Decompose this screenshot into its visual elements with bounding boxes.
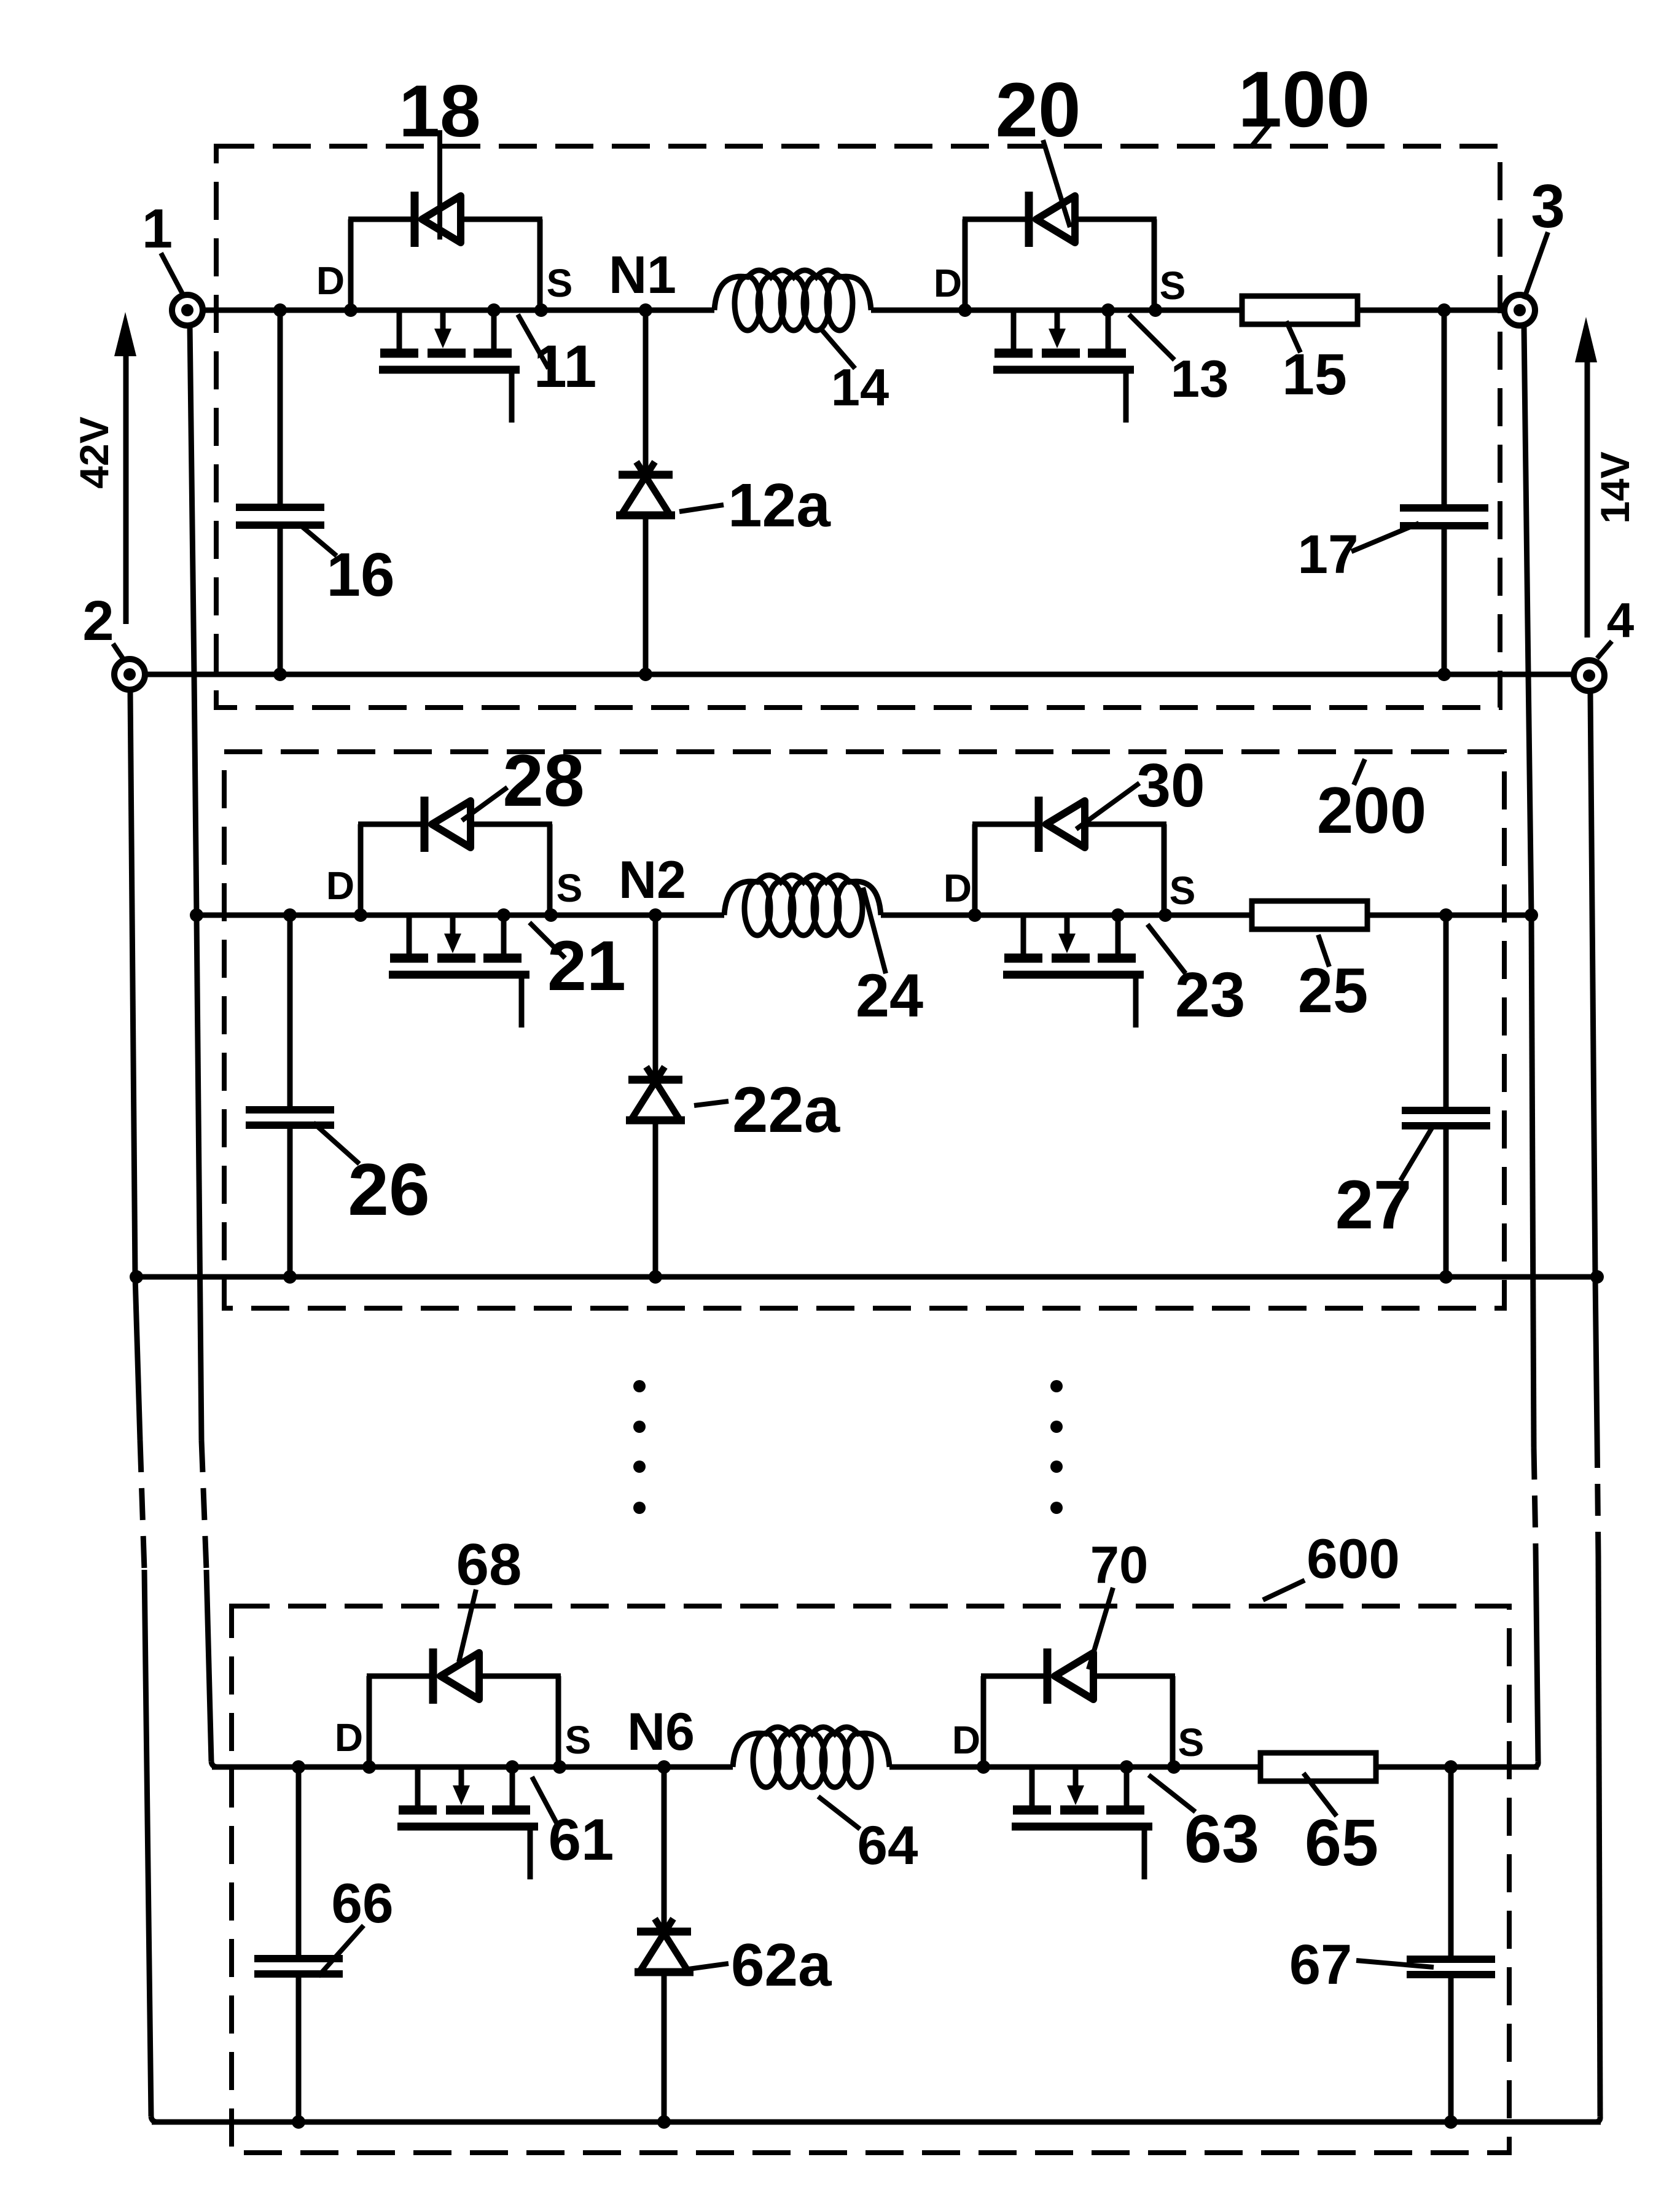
diode D18 <box>415 192 461 247</box>
svg-text:67: 67 <box>1289 1933 1352 1996</box>
svg-text:S: S <box>565 1718 592 1762</box>
label 25 <box>1298 935 1369 1026</box>
junction: ground bus at block 200 bottom rail <box>130 1270 143 1284</box>
label block 100 <box>1238 55 1370 147</box>
dashed box: converter block 200 <box>224 752 1504 1308</box>
capacitor C67 <box>1407 1767 1495 2122</box>
junction: source stub of Q11 <box>487 303 501 317</box>
svg-text:14: 14 <box>831 359 889 417</box>
label 11 <box>518 314 596 400</box>
svg-text:18: 18 <box>399 70 480 152</box>
junction: source stub of Q13 <box>1101 303 1115 317</box>
42V arrow <box>114 312 136 624</box>
wire: bottom rail block 600 <box>152 2120 1601 2125</box>
inductor L64 <box>733 1727 889 1767</box>
svg-text:42V: 42V <box>71 416 117 488</box>
junction: drain of Q63 <box>977 1760 990 1774</box>
label 62a <box>689 1931 832 1999</box>
svg-text:30: 30 <box>1136 751 1205 820</box>
svg-text:62a: 62a <box>731 1931 832 1999</box>
wire: ground bus from terminal 2 down to blocks 200 and 600 <box>130 691 157 2122</box>
inductor L24 <box>724 875 881 915</box>
junction: source of Q11 <box>534 303 548 317</box>
svg-text:15: 15 <box>1282 342 1347 407</box>
wire: diode D30 loop <box>972 824 1166 915</box>
transistor Q21 (MOSFET 21) <box>389 915 529 1028</box>
wire: diode D20 loop <box>963 219 1157 310</box>
wire: top rail block 100 (terminal 1 to terminal 3) <box>203 308 1504 313</box>
label block 600 <box>1263 1528 1400 1600</box>
diode D20 <box>1029 192 1075 247</box>
capacitor C66 <box>254 1767 343 2122</box>
svg-text:25: 25 <box>1298 955 1369 1026</box>
svg-text:D: D <box>944 866 972 910</box>
label 27 <box>1335 1127 1432 1243</box>
svg-text:65: 65 <box>1305 1805 1378 1879</box>
svg-text:23: 23 <box>1175 959 1246 1030</box>
wire: node to zener 12a <box>643 310 649 475</box>
inductor L14 <box>714 270 871 310</box>
wire: node to zener 22a <box>653 915 658 1080</box>
junction: C66 top <box>292 1760 305 1774</box>
svg-text:24: 24 <box>856 961 923 1029</box>
junction: C67 bottom <box>1444 2115 1458 2129</box>
svg-text:100: 100 <box>1238 55 1370 144</box>
label 30 <box>1076 751 1205 829</box>
junction: drain of Q21 <box>354 908 367 922</box>
svg-text:22a: 22a <box>732 1074 841 1146</box>
wire: terminal 4 bus down to blocks 200 and 600 <box>1590 693 1600 2122</box>
wire: node to zener 62a <box>662 1767 667 1932</box>
svg-text:63: 63 <box>1184 1801 1259 1877</box>
label 21 <box>529 922 626 1005</box>
svg-text:28: 28 <box>502 739 584 822</box>
resistor R15 <box>1242 296 1358 324</box>
wire: zener 22a to bottom rail <box>653 1120 658 1277</box>
diode D30 <box>1039 797 1085 852</box>
junction: drain of Q13 <box>958 303 972 317</box>
svg-text:S: S <box>547 261 573 305</box>
svg-text:1: 1 <box>142 198 173 260</box>
label 70 <box>1088 1536 1148 1669</box>
svg-text:200: 200 <box>1317 773 1427 847</box>
label 12a <box>679 471 831 540</box>
capacitor C16 <box>236 310 324 674</box>
node N6 <box>657 1760 671 1774</box>
svg-text:13: 13 <box>1171 350 1229 408</box>
wire: diode D70 loop <box>981 1676 1175 1767</box>
terminal 2 <box>114 659 145 690</box>
label 26 <box>313 1123 430 1231</box>
junction: drain of Q61 <box>362 1760 376 1774</box>
label 67 <box>1289 1933 1434 1996</box>
svg-text:27: 27 <box>1335 1166 1412 1243</box>
junction: source stub of Q23 <box>1111 908 1125 922</box>
svg-text:26: 26 <box>348 1149 429 1231</box>
label 20 <box>995 68 1080 227</box>
terminal 1 <box>172 295 203 326</box>
svg-text:68: 68 <box>456 1532 522 1597</box>
svg-text:D: D <box>326 864 354 908</box>
junction: source of Q61 <box>553 1760 566 1774</box>
junction: source of Q63 <box>1167 1760 1181 1774</box>
junction: drain of Q11 <box>344 303 357 317</box>
junction: R65 output node <box>1444 1760 1458 1774</box>
svg-text:14V: 14V <box>1592 451 1638 523</box>
junction: source of Q13 <box>1149 303 1162 317</box>
junction: source stub of Q61 <box>506 1760 519 1774</box>
junction: C66 bottom <box>292 2115 305 2129</box>
wire: 42V bus from terminal 1 down to blocks 200 and 600 <box>190 324 217 1767</box>
svg-text:S: S <box>1178 1720 1205 1765</box>
label 28 <box>462 739 585 822</box>
junction: source of Q21 <box>544 908 558 922</box>
label 15 <box>1282 321 1347 407</box>
svg-text:12a: 12a <box>728 471 831 540</box>
resistor R65 <box>1260 1753 1376 1781</box>
label 24 <box>856 887 923 1029</box>
svg-text:D: D <box>952 1718 980 1762</box>
diode D68 <box>433 1648 479 1704</box>
svg-text:61: 61 <box>549 1807 614 1873</box>
wire: diode D68 loop <box>367 1676 561 1767</box>
label 13 <box>1129 314 1229 408</box>
label 14 <box>821 329 889 417</box>
junction: R15 output node <box>1437 303 1451 317</box>
wire: diode D28 loop <box>358 824 552 915</box>
svg-text:600: 600 <box>1307 1528 1400 1590</box>
label block 200 <box>1317 759 1427 847</box>
ellipsis dots (more blocks) right column <box>1050 1380 1063 1514</box>
transistor Q61 (MOSFET 61) <box>397 1767 538 1879</box>
junction: C26 top <box>283 908 297 922</box>
label 23 <box>1147 924 1245 1030</box>
wire: bottom rail (terminal 2 to terminal 4) <box>145 672 1574 677</box>
junction: C26 bottom <box>283 1270 297 1284</box>
svg-text:17: 17 <box>1298 523 1359 585</box>
svg-text:S: S <box>1170 868 1196 913</box>
capacitor C17 <box>1400 310 1488 674</box>
label 64 <box>818 1796 918 1876</box>
svg-text:N6: N6 <box>627 1703 695 1761</box>
junction: source stub of Q63 <box>1120 1760 1133 1774</box>
zener diode 12a <box>616 462 675 515</box>
svg-text:D: D <box>335 1715 363 1760</box>
svg-text:64: 64 <box>858 1814 918 1876</box>
junction: terminal 4 bus at block 200 bottom rail <box>1590 1270 1604 1284</box>
junction: 14V bus at block 200 rail <box>1525 908 1538 922</box>
diode D70 <box>1047 1648 1093 1704</box>
junction: C16 top <box>273 303 287 317</box>
svg-text:N2: N2 <box>619 851 686 910</box>
wire: zener 62a to bottom rail <box>662 1972 667 2122</box>
capacitor C26 <box>246 915 334 1277</box>
wire: diode D18 loop <box>348 219 542 310</box>
junction: source of Q23 <box>1158 908 1172 922</box>
svg-text:2: 2 <box>82 590 114 652</box>
svg-text:S: S <box>1160 263 1186 308</box>
dashed box: converter block 600 <box>232 1606 1509 2153</box>
node N1 <box>639 303 652 317</box>
transistor Q11 (MOSFET 11) <box>379 310 520 423</box>
svg-text:16: 16 <box>326 540 394 609</box>
junction: R25 output node <box>1439 908 1453 922</box>
svg-text:4: 4 <box>1607 593 1635 647</box>
wire: top rail block 600 <box>212 1765 1539 1770</box>
node N2 <box>649 908 662 922</box>
svg-text:D: D <box>934 261 962 305</box>
label 3 <box>1524 172 1565 299</box>
label 66 <box>318 1873 394 1976</box>
svg-text:N1: N1 <box>609 246 676 305</box>
wire: top rail block 200 <box>197 913 1531 918</box>
label 17 <box>1298 523 1420 585</box>
svg-text:D: D <box>316 259 345 303</box>
svg-text:S: S <box>557 866 583 910</box>
wire: bottom rail block 200 <box>136 1274 1597 1280</box>
junction: source stub of Q21 <box>497 908 510 922</box>
junction: 42V bus at block 200 rail <box>190 908 203 922</box>
svg-text:66: 66 <box>331 1873 393 1935</box>
label 61 <box>532 1777 614 1873</box>
label 16 <box>301 526 395 609</box>
svg-text:21: 21 <box>547 927 626 1005</box>
diode D28 <box>424 797 471 852</box>
label 2 <box>82 590 123 658</box>
transistor Q63 (MOSFET 63) <box>1012 1767 1152 1879</box>
zener diode 22a <box>626 1067 685 1120</box>
dashed box: converter block 100 <box>216 146 1500 708</box>
junction: C17 bottom <box>1437 668 1451 681</box>
terminal 4 <box>1574 660 1604 691</box>
junction: zener 22a at bottom rail <box>649 1270 662 1284</box>
14V arrow <box>1575 317 1597 638</box>
svg-text:70: 70 <box>1090 1536 1149 1594</box>
label 68 <box>456 1532 522 1662</box>
wire: zener 12a to bottom rail <box>643 515 649 674</box>
junction: zener 12a at bottom rail <box>639 668 652 681</box>
label 65 <box>1303 1773 1378 1879</box>
label 18 <box>399 70 480 240</box>
capacitor C27 <box>1402 915 1490 1277</box>
svg-text:20: 20 <box>995 68 1080 153</box>
junction: zener 62a at bottom rail <box>657 2115 671 2129</box>
transistor Q23 (MOSFET 23) <box>1003 915 1144 1028</box>
label 63 <box>1149 1775 1259 1877</box>
junction: drain of Q23 <box>968 908 982 922</box>
transistor Q13 (MOSFET 13) <box>993 310 1134 423</box>
ellipsis dots (more blocks) left column <box>633 1380 646 1514</box>
junction: C16 bottom <box>273 668 287 681</box>
zener diode 62a <box>635 1919 693 1972</box>
wire: 14V bus from terminal 3 down to blocks 200 and 600 <box>1524 327 1538 1767</box>
resistor R25 <box>1252 901 1367 929</box>
label 22a <box>694 1074 841 1146</box>
terminal 3 <box>1504 295 1535 326</box>
svg-text:11: 11 <box>534 333 597 400</box>
junction: C27 bottom <box>1439 1270 1453 1284</box>
label 4 <box>1597 593 1635 658</box>
label 1 <box>142 198 183 295</box>
svg-text:3: 3 <box>1531 172 1565 241</box>
